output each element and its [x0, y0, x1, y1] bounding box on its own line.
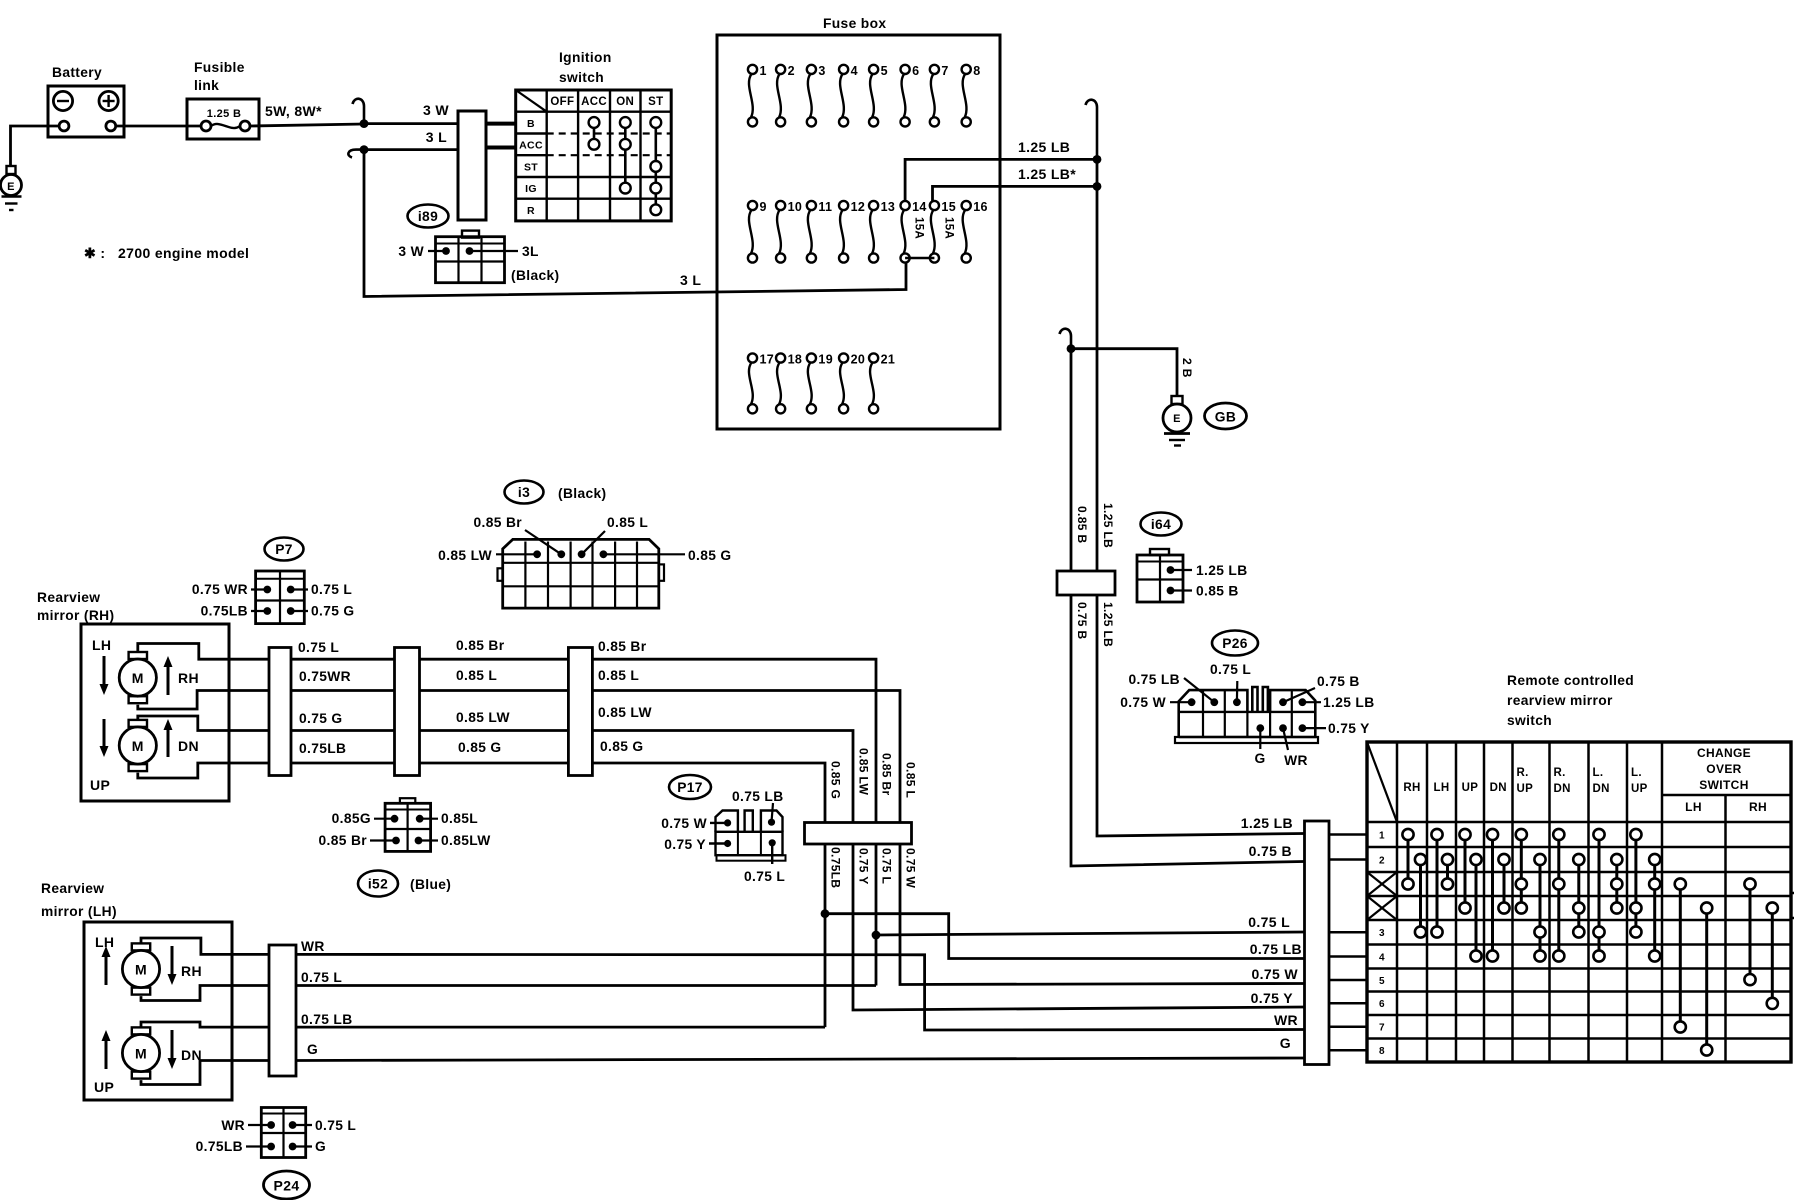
fuse box	[717, 35, 1000, 429]
node 3W junction	[360, 119, 369, 128]
svg-text:0.85 Br: 0.85 Br	[598, 639, 647, 654]
svg-text:6: 6	[912, 64, 919, 78]
svg-text:i3: i3	[518, 485, 530, 500]
fusible link	[187, 99, 259, 139]
hook connector (3W)	[353, 99, 365, 124]
X cell crosses	[1367, 872, 1397, 920]
table row labels	[1379, 830, 1385, 1057]
svg-text:8: 8	[1379, 1046, 1385, 1057]
svg-text:15A: 15A	[913, 217, 925, 239]
connector i3	[498, 539, 665, 608]
svg-text:0.75 L: 0.75 L	[311, 582, 352, 597]
svg-text:UP: UP	[1631, 783, 1648, 795]
svg-text:E: E	[7, 181, 15, 193]
wire 3W	[364, 122, 458, 125]
svg-text:0.75 W: 0.75 W	[904, 848, 918, 888]
svg-text:10: 10	[788, 200, 803, 214]
svg-text:0.75 W: 0.75 W	[1120, 695, 1166, 710]
wire 1.25LB* (fuse15)	[933, 186, 1098, 201]
svg-text:0.85LW: 0.85LW	[441, 833, 491, 848]
svg-text:16: 16	[973, 200, 988, 214]
wire 0.75L from LH mirror	[296, 984, 876, 987]
wire 3L long run	[364, 150, 906, 297]
svg-text:0.85 B: 0.85 B	[1075, 506, 1089, 543]
svg-text:0.85 G: 0.85 G	[458, 740, 502, 755]
svg-text:1.25 LB: 1.25 LB	[1323, 695, 1375, 710]
motor M (LH mirror upper)	[122, 943, 159, 994]
battery	[48, 86, 124, 137]
svg-text:0.75 L: 0.75 L	[880, 848, 894, 884]
connector P26 oval	[1212, 631, 1258, 656]
node 3L junction	[360, 145, 369, 154]
svg-text:11: 11	[818, 200, 832, 214]
svg-text:0.75 L: 0.75 L	[744, 869, 785, 884]
connector bundle bar	[805, 823, 912, 845]
GB oval label	[1205, 403, 1247, 429]
svg-text:RH: RH	[1749, 800, 1767, 814]
wire 0.85G seg2	[420, 762, 569, 765]
wire LH motor2 bottom bracket	[141, 1061, 269, 1085]
svg-text:CHANGE: CHANGE	[1697, 746, 1751, 760]
switch contacts DN	[1487, 829, 1498, 962]
svg-text:WR: WR	[1284, 753, 1308, 768]
wire RH motor1 bottom bracket	[138, 691, 269, 710]
ground E (battery)	[1, 166, 22, 210]
svg-text:0.75 Y: 0.75 Y	[857, 848, 871, 885]
svg-text:LH: LH	[1433, 782, 1449, 794]
connector P7	[256, 571, 305, 624]
svg-text:DN: DN	[181, 1047, 202, 1063]
svg-text:0.75 Y: 0.75 Y	[664, 837, 706, 852]
svg-text:15: 15	[941, 200, 956, 214]
fuses 9-16	[748, 200, 988, 263]
ignition contact circles	[589, 117, 662, 215]
i64 pin labels	[1171, 569, 1193, 571]
svg-text:0.85 Br: 0.85 Br	[456, 638, 505, 653]
svg-text:ST: ST	[524, 161, 538, 173]
svg-text:0.75 L: 0.75 L	[315, 1118, 356, 1133]
svg-text:DN: DN	[1490, 782, 1507, 794]
svg-text:3 L: 3 L	[426, 129, 447, 145]
switch contacts RH	[1402, 829, 1413, 890]
svg-text:Rearview: Rearview	[41, 881, 104, 896]
svg-text:(Blue): (Blue)	[410, 877, 451, 892]
connector P24 oval	[264, 1171, 310, 1199]
svg-text:20: 20	[851, 353, 866, 367]
svg-text:1.25 LB: 1.25 LB	[1196, 563, 1248, 578]
svg-text:13: 13	[881, 200, 896, 214]
connector i64	[1137, 549, 1183, 602]
wire 1.25LB vertical	[1096, 159, 1099, 571]
svg-text:DN: DN	[1593, 783, 1610, 795]
svg-text:i52: i52	[368, 877, 388, 892]
svg-text:6: 6	[1379, 999, 1385, 1010]
svg-text:1.25 LB: 1.25 LB	[1101, 602, 1115, 647]
wire 0.75LB from LH mirror	[296, 1026, 825, 1029]
svg-text:0.75 L: 0.75 L	[1210, 662, 1251, 677]
switch contacts UP	[1459, 829, 1470, 914]
wire fuse14-15 bottom link	[905, 257, 934, 259]
svg-text:0.75 L: 0.75 L	[301, 970, 342, 985]
svg-text:0.75 Y: 0.75 Y	[1251, 990, 1294, 1006]
svg-text:L.: L.	[1593, 767, 1604, 779]
svg-text:0.85 B: 0.85 B	[1196, 584, 1239, 599]
svg-text:0.85 Br: 0.85 Br	[880, 753, 894, 795]
node 0.75L junction	[872, 931, 881, 940]
svg-text:WR: WR	[1274, 1012, 1298, 1028]
connector i89	[436, 231, 505, 283]
svg-text:4: 4	[1379, 952, 1385, 963]
svg-text:4: 4	[851, 64, 858, 78]
svg-text:(Black): (Black)	[558, 486, 606, 501]
svg-text:R.: R.	[1554, 767, 1566, 779]
svg-text:5: 5	[881, 64, 888, 78]
bar to table stubs	[1329, 835, 1367, 1051]
svg-text:0.85 G: 0.85 G	[600, 739, 644, 754]
ground E (GB)	[1163, 396, 1191, 446]
arrow LH m2 left (up)	[102, 1030, 111, 1069]
svg-text:19: 19	[818, 353, 833, 367]
svg-text:7: 7	[1379, 1023, 1385, 1034]
connector bar 1	[269, 648, 291, 776]
svg-text:0.75 Y: 0.75 Y	[1328, 721, 1370, 736]
fuses 1-8	[748, 64, 981, 127]
svg-text:Fuse box: Fuse box	[823, 16, 886, 31]
svg-text:Ignition: Ignition	[559, 50, 612, 65]
svg-text:1.25 B: 1.25 B	[207, 108, 242, 120]
svg-text:E: E	[1173, 413, 1181, 425]
svg-text:0.85 LW: 0.85 LW	[438, 548, 492, 563]
svg-text:OFF: OFF	[550, 96, 574, 108]
motor M (RH mirror lower)	[119, 720, 156, 771]
svg-text:1: 1	[1379, 830, 1385, 841]
svg-text:0.85 LW: 0.85 LW	[598, 705, 652, 720]
svg-text:0.75 L: 0.75 L	[1248, 914, 1290, 930]
arrow RH m2 right (up)	[164, 719, 173, 757]
wire 0.85Br seg2	[420, 658, 569, 661]
svg-text:0.75LB: 0.75LB	[829, 847, 843, 888]
svg-text:2 B: 2 B	[1180, 358, 1194, 378]
connector i89 oval	[427, 215, 430, 218]
connector bar 2	[395, 648, 420, 776]
motor M (LH mirror lower)	[122, 1027, 159, 1078]
connector P17	[716, 811, 786, 861]
i3 pin labels	[496, 553, 537, 555]
svg-text:0.85 Br: 0.85 Br	[319, 833, 368, 848]
svg-text:ON: ON	[616, 96, 634, 108]
svg-text:0.85 L: 0.85 L	[904, 762, 918, 798]
table column headers	[1403, 767, 1647, 795]
svg-text:0.75LB: 0.75LB	[196, 1139, 243, 1154]
svg-text:0.85 L: 0.85 L	[456, 668, 497, 683]
arrow RH m1 right (up)	[164, 656, 173, 695]
svg-text:17: 17	[760, 353, 775, 367]
fuses 17-21	[748, 353, 895, 414]
svg-text:L.: L.	[1631, 767, 1642, 779]
arrow LH m2 right (down)	[168, 1030, 177, 1069]
svg-text:link: link	[194, 78, 219, 93]
svg-text:3L: 3L	[522, 244, 539, 259]
wire 0.75G seg	[291, 729, 395, 732]
arrow LH m1 right (down)	[168, 946, 177, 985]
connector bar LH	[269, 945, 296, 1076]
svg-text:B: B	[527, 118, 535, 130]
svg-text:G: G	[315, 1139, 326, 1154]
svg-text:ST: ST	[648, 96, 663, 108]
svg-text:0.85G: 0.85G	[332, 811, 371, 826]
connector P26	[1175, 687, 1318, 743]
svg-text:1.25 LB*: 1.25 LB*	[1018, 166, 1076, 182]
svg-text:P17: P17	[677, 780, 703, 795]
svg-text:0.75 LB: 0.75 LB	[1128, 672, 1180, 687]
svg-text:0.75 L: 0.75 L	[298, 640, 339, 655]
P7 pin labels	[251, 588, 267, 590]
svg-text:0.75LB: 0.75LB	[299, 741, 346, 756]
wire 0.75Y vertical	[853, 844, 1304, 1010]
svg-text:0.75 B: 0.75 B	[1075, 602, 1089, 639]
svg-text:0.75LB: 0.75LB	[201, 604, 248, 619]
P24 pin labels	[248, 1124, 271, 1126]
wire 0.75L to bar	[876, 932, 1304, 935]
connector i64 oval	[1141, 513, 1182, 536]
motor M (RH mirror upper)	[119, 652, 156, 703]
svg-text:3 W: 3 W	[398, 244, 424, 259]
switch contacts R.UP	[1516, 829, 1527, 914]
svg-text:3: 3	[1379, 928, 1385, 939]
svg-text:0.85 LW: 0.85 LW	[456, 710, 510, 725]
connector P7 oval	[265, 538, 304, 561]
svg-text:mirror (LH): mirror (LH)	[41, 904, 117, 919]
svg-text:UP: UP	[94, 1079, 114, 1095]
wire battery to ground	[11, 126, 60, 166]
ignition switch table	[516, 90, 672, 221]
svg-text:rearview mirror: rearview mirror	[1507, 693, 1613, 708]
svg-text:0.75 G: 0.75 G	[311, 604, 355, 619]
connector P24	[261, 1108, 305, 1158]
svg-text:LH: LH	[1685, 800, 1702, 814]
svg-text:18: 18	[788, 353, 803, 367]
switch table frame	[1367, 742, 1791, 1062]
svg-text:0.75 G: 0.75 G	[299, 711, 343, 726]
svg-text:WR: WR	[221, 1118, 245, 1133]
svg-text:0.75 W: 0.75 W	[661, 816, 707, 831]
wire 0.85B vertical	[1070, 349, 1073, 571]
svg-text:14: 14	[912, 200, 927, 214]
svg-text:P7: P7	[275, 542, 293, 557]
svg-text:7: 7	[941, 64, 948, 78]
svg-text:Battery: Battery	[52, 65, 102, 80]
connector bar (ignition)	[458, 111, 486, 220]
svg-text:1.25 LB: 1.25 LB	[1241, 815, 1293, 831]
connector i52 oval	[358, 871, 398, 897]
wire 0.75B vertical	[1071, 595, 1304, 866]
wire 0.75L seg	[291, 658, 395, 661]
svg-text:3 W: 3 W	[423, 102, 449, 118]
svg-text:21: 21	[881, 353, 896, 367]
svg-text:P24: P24	[274, 1178, 300, 1194]
svg-text:LH: LH	[92, 637, 111, 653]
wire 0.85LW seg2	[420, 729, 569, 732]
wire 1.25LB vertical lower	[1097, 595, 1304, 836]
svg-text:0.75WR: 0.75WR	[299, 669, 351, 684]
svg-text:8: 8	[973, 64, 980, 78]
svg-text:R: R	[527, 205, 535, 217]
svg-text:switch: switch	[559, 70, 604, 85]
svg-text:UP: UP	[1462, 782, 1479, 794]
svg-text:i64: i64	[1151, 517, 1171, 532]
node 1.25LB* junction	[1093, 182, 1102, 191]
node GB junction	[1067, 344, 1076, 353]
svg-text:G: G	[1254, 751, 1265, 766]
svg-text:0.75 LB: 0.75 LB	[1250, 941, 1302, 957]
node 0.75LB junction	[821, 909, 830, 918]
svg-text:✱ : 2700 engine model: ✱ : 2700 engine model	[84, 245, 249, 261]
arrow RH m1 left (down)	[100, 656, 109, 695]
svg-text:2: 2	[788, 64, 795, 78]
svg-text:Rearview: Rearview	[37, 590, 100, 605]
wire to GB ground	[1071, 349, 1177, 396]
connector crossing bar	[1057, 571, 1115, 595]
svg-text:P26: P26	[1222, 636, 1248, 651]
P26 pin labels	[1170, 701, 1192, 703]
svg-text:GB: GB	[1215, 410, 1236, 425]
wire RH motor1 top bracket	[138, 644, 269, 660]
node 1.25LB junction	[1093, 155, 1102, 164]
svg-text:0.75 B: 0.75 B	[1317, 674, 1360, 689]
svg-text:9: 9	[760, 200, 767, 214]
svg-text:G: G	[307, 1042, 318, 1057]
wire bar to B row	[486, 122, 517, 126]
wire 0.75LB vertical	[824, 844, 827, 1027]
svg-text:IG: IG	[525, 183, 537, 195]
svg-text:switch: switch	[1507, 713, 1552, 728]
svg-text:0.85 G: 0.85 G	[688, 548, 732, 563]
svg-text:M: M	[135, 962, 147, 978]
svg-text:0.85 L: 0.85 L	[607, 515, 648, 530]
svg-text:12: 12	[851, 200, 866, 214]
svg-text:0.75 W: 0.75 W	[1252, 966, 1299, 982]
wire WR run	[296, 954, 1304, 1030]
wire battery to fusible link	[116, 125, 201, 128]
svg-text:0.75 LB: 0.75 LB	[732, 789, 784, 804]
svg-text:(Black): (Black)	[511, 268, 559, 283]
svg-text:G: G	[1280, 1035, 1291, 1051]
wire RH motor2 bottom bracket	[138, 763, 269, 778]
wire 1.25LB (fuse14)	[905, 159, 1097, 201]
svg-text:DN: DN	[178, 738, 199, 754]
svg-text:0.75 B: 0.75 B	[1249, 843, 1292, 859]
svg-text:0.85 G: 0.85 G	[829, 761, 843, 799]
svg-text:LH: LH	[95, 934, 114, 950]
wire 3L	[364, 148, 458, 151]
connector i3 oval	[505, 481, 544, 504]
svg-text:0.85 LW: 0.85 LW	[857, 748, 871, 795]
svg-text:0.85 Br: 0.85 Br	[474, 515, 523, 530]
i89 pin labels	[428, 250, 446, 252]
changeover contacts RH	[1744, 878, 1755, 985]
svg-text:RH: RH	[1403, 782, 1420, 794]
svg-text:SWITCH: SWITCH	[1699, 778, 1748, 792]
svg-text:WR: WR	[301, 939, 325, 954]
svg-text:UP: UP	[90, 777, 110, 793]
connector bar 3	[568, 648, 592, 776]
svg-text:1.25 LB: 1.25 LB	[1101, 503, 1115, 548]
svg-text:OVER: OVER	[1706, 762, 1741, 776]
svg-text:UP: UP	[1517, 783, 1534, 795]
svg-text:0.85L: 0.85L	[441, 811, 478, 826]
hook connector (3L)	[348, 150, 364, 158]
wire 0.75WR seg	[291, 689, 395, 692]
wire LH motor1 top bracket	[141, 938, 269, 954]
svg-text:RH: RH	[181, 963, 202, 979]
svg-text:0.85 L: 0.85 L	[598, 668, 639, 683]
svg-text:3 L: 3 L	[680, 272, 701, 288]
svg-text:RH: RH	[178, 670, 199, 686]
svg-text:ACC: ACC	[519, 140, 543, 152]
svg-text:1: 1	[760, 64, 767, 78]
svg-text:0.75 LB: 0.75 LB	[301, 1012, 353, 1027]
switch contacts L.DN	[1593, 829, 1604, 962]
svg-text:DN: DN	[1554, 783, 1571, 795]
svg-text:0.75 WR: 0.75 WR	[192, 582, 248, 597]
svg-text:mirror (RH): mirror (RH)	[37, 608, 114, 623]
wire 0.85L seg2	[420, 689, 569, 692]
wire 0.75L vertical	[875, 844, 878, 986]
svg-text:3: 3	[818, 64, 825, 78]
P17 pin labels	[710, 822, 728, 824]
svg-text:M: M	[135, 1046, 147, 1062]
wire 0.75LB seg	[291, 762, 395, 765]
svg-text:5: 5	[1379, 976, 1385, 987]
switch contacts LH	[1431, 829, 1442, 938]
changeover contacts LH	[1675, 878, 1686, 1032]
arrow RH m2 left (down)	[100, 719, 109, 757]
svg-text:15A: 15A	[943, 217, 955, 239]
hook connector (1.25LB top)	[1086, 100, 1098, 160]
wire fusible link to junction	[250, 124, 364, 126]
wire 0.85L seg3 + turn	[592, 691, 900, 823]
wire 0.85LW seg3 + turn	[592, 731, 853, 823]
svg-text:1.25 LB: 1.25 LB	[1018, 139, 1070, 155]
arrow LH m1 left (up)	[102, 946, 111, 985]
svg-text:Remote controlled: Remote controlled	[1507, 673, 1634, 688]
wire 0.75W vertical	[900, 844, 1304, 985]
connector i52	[385, 798, 431, 851]
svg-text:ACC: ACC	[581, 96, 607, 108]
connector P17 oval	[669, 775, 711, 799]
wire LH motor2 top bracket	[141, 1022, 269, 1027]
rearview mirror LH box	[84, 922, 232, 1100]
wire bar to ACC row	[486, 146, 517, 150]
wire 0.85G seg3 + turn	[592, 763, 825, 823]
svg-text:i89: i89	[418, 209, 438, 224]
svg-text:M: M	[132, 738, 144, 754]
switch contacts L.UP	[1630, 829, 1641, 938]
svg-text:5W, 8W*: 5W, 8W*	[265, 103, 322, 119]
table row line stubs right	[1791, 892, 1794, 895]
wire 0.85Br seg3 + turn	[592, 659, 876, 822]
svg-text:Fusible: Fusible	[194, 60, 245, 75]
i52 pin labels	[374, 818, 395, 820]
connector bar (switch)	[1305, 821, 1330, 1065]
svg-text:R.: R.	[1517, 767, 1529, 779]
wire 0.75LB to bar (step)	[825, 914, 1304, 959]
switch contacts R.DN	[1553, 829, 1564, 962]
wire LH motor1 bottom bracket	[141, 986, 269, 1001]
wire G run	[296, 1058, 1304, 1061]
hook connector (0.85B top)	[1060, 329, 1072, 349]
rearview mirror RH box	[81, 624, 229, 801]
